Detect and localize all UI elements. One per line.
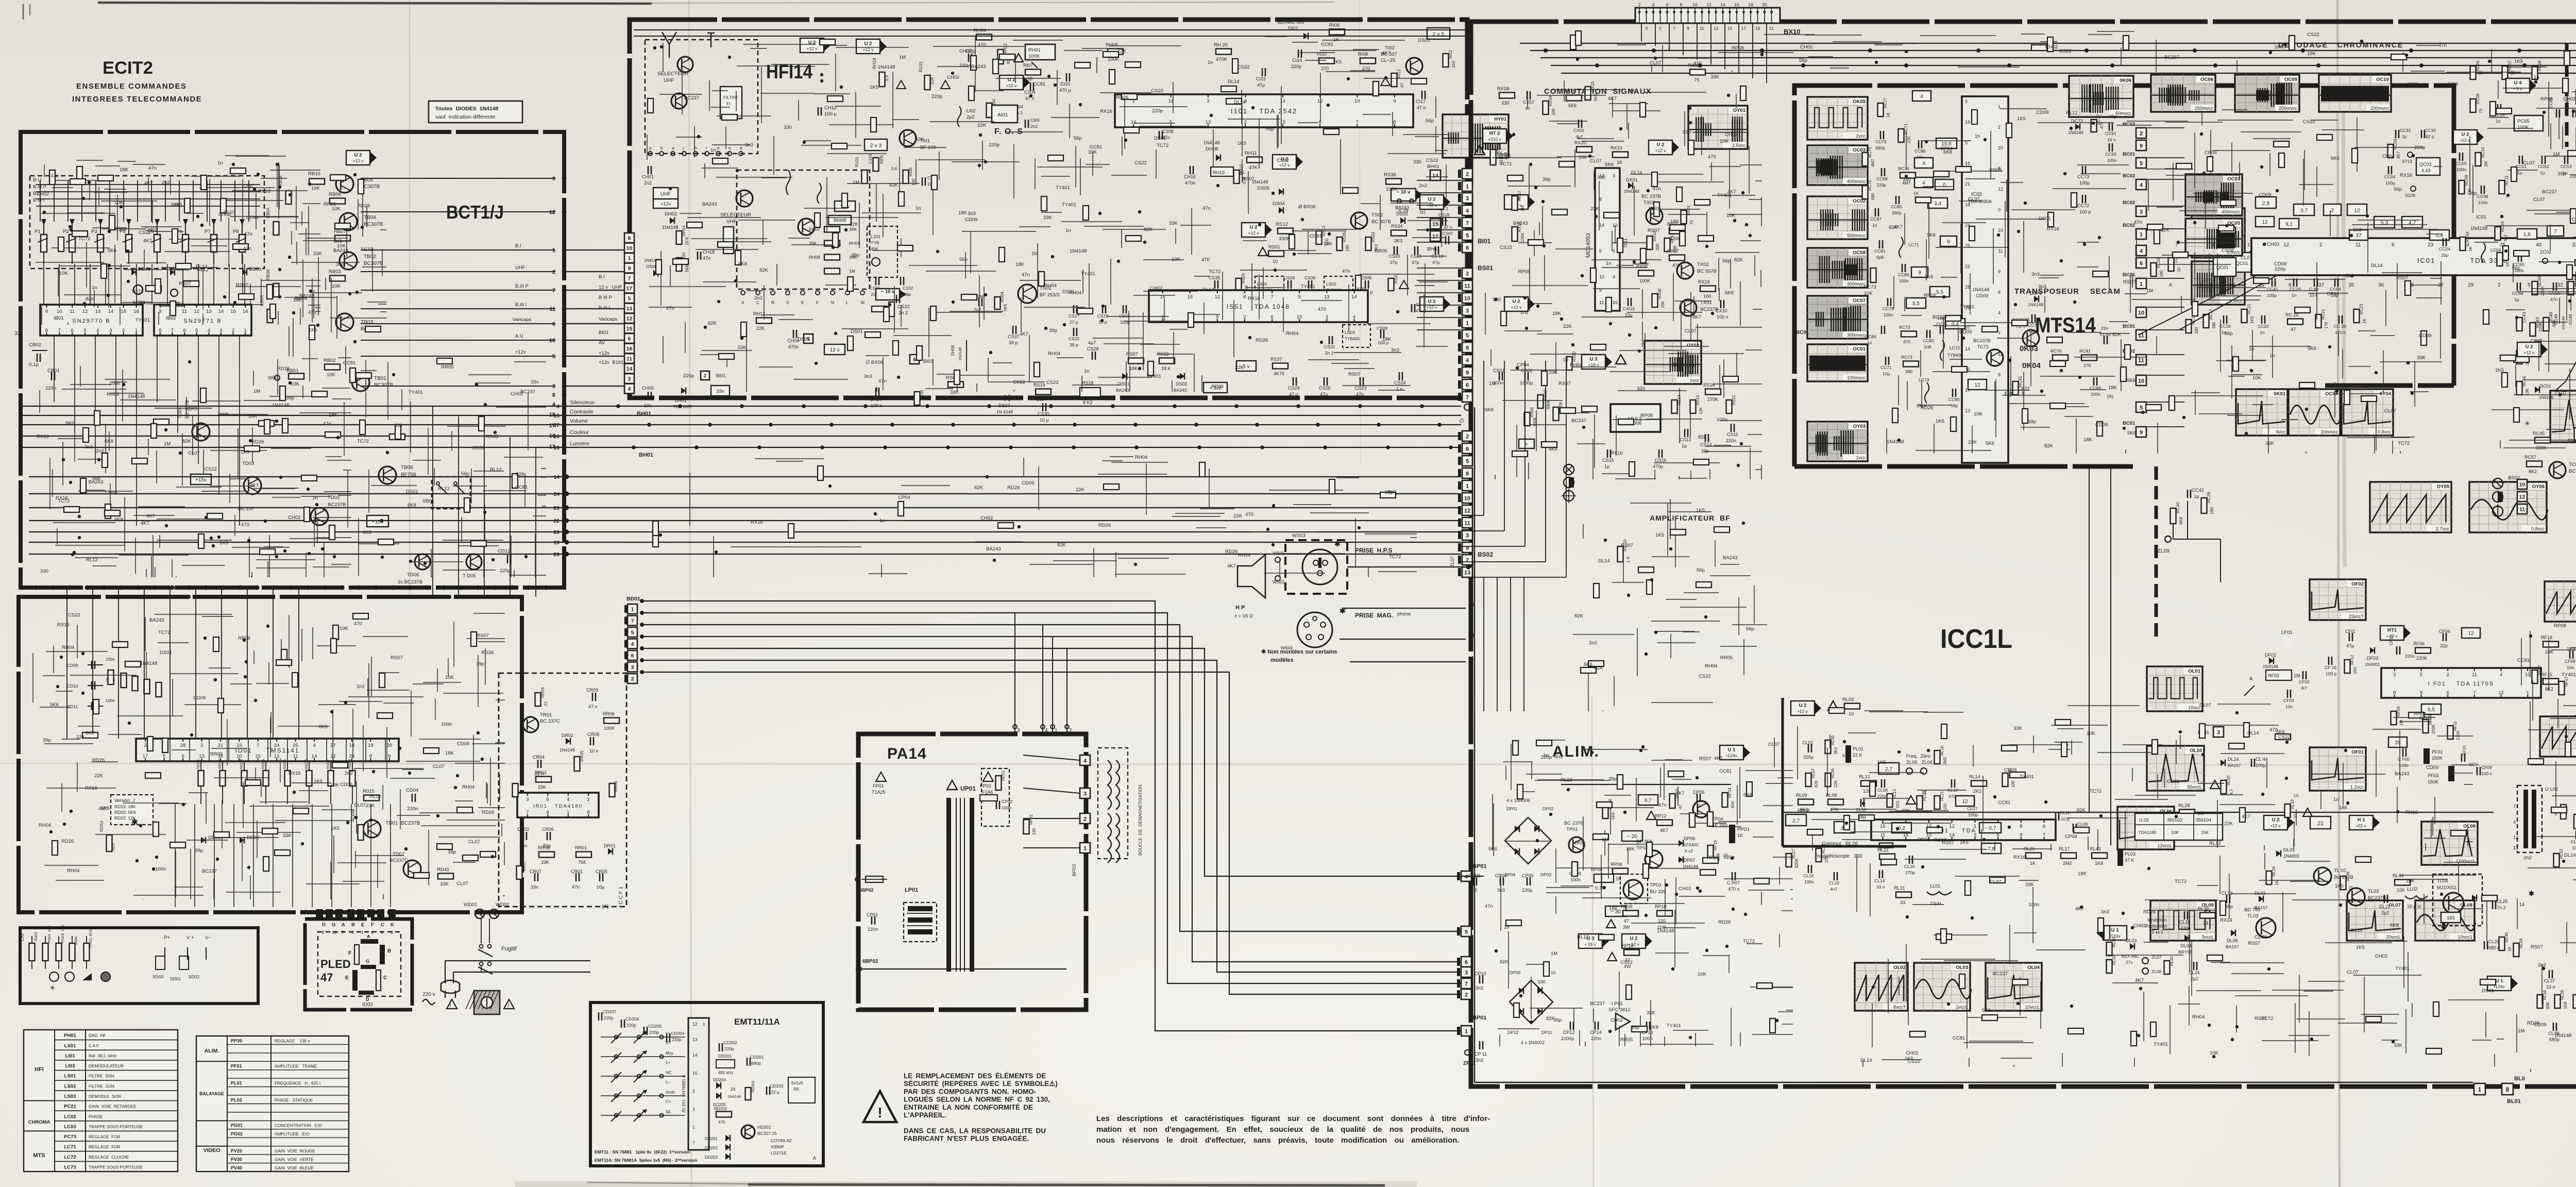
svg-text:CC52: CC52 <box>2538 164 2549 169</box>
svg-text:23: 23 <box>2428 242 2434 248</box>
svg-text:RB07: RB07 <box>334 229 346 235</box>
svg-text:10: 10 <box>1273 259 1278 264</box>
resistor RB08 RB04 RB06 RB05 vertical <box>259 175 292 323</box>
svg-text:100n: 100n <box>1884 312 1893 317</box>
svg-text:BZX46C: BZX46C <box>1683 842 1699 847</box>
svg-text:4µ7: 4µ7 <box>1088 340 1096 345</box>
flag U2 commut <box>1649 140 1679 155</box>
svg-text:1n: 1n <box>1867 340 1872 345</box>
svg-text:RP18: RP18 <box>1622 943 1634 948</box>
components CC43 RC43 RC48 RC42 DC49 column <box>2517 312 2576 365</box>
svg-text:56p: 56p <box>1074 136 1082 141</box>
svg-text:12K: 12K <box>1699 407 1703 414</box>
svg-text:Mcy.: Mcy. <box>666 1051 674 1056</box>
svg-text:1µ: 1µ <box>2540 170 2545 175</box>
svg-text:RD26: RD26 <box>358 203 370 209</box>
bridge rectifier DP09-DP12 <box>1507 970 1556 1045</box>
svg-text:ID01 TMS1141: ID01 TMS1141 <box>235 747 300 754</box>
svg-text:a: a <box>672 145 674 151</box>
switch SB01 <box>422 477 470 509</box>
svg-text:RX16: RX16 <box>289 771 301 776</box>
svg-text:220µ: 220µ <box>1522 888 1532 893</box>
svg-text:50mvcc: 50mvcc <box>2115 111 2132 116</box>
svg-text:1n: 1n <box>1872 223 1877 228</box>
components around TDA1170S <box>2345 626 2480 667</box>
svg-text:U 3: U 3 <box>1590 357 1598 362</box>
svg-text:1: 1 <box>703 1022 705 1027</box>
transistor TD07 BC237C <box>389 851 421 878</box>
svg-text:LC04: LC04 <box>2490 247 2501 253</box>
components RF03 1M 6.5 RF04 200K 28 CF05 100n PF01 150K RF11 270K PF03 150K <box>2388 704 2493 784</box>
svg-text:5: 5 <box>1465 929 1468 935</box>
svg-text:10: 10 <box>1599 274 1604 279</box>
svg-text:4K7: 4K7 <box>1020 331 1028 337</box>
svg-text:CS33: CS33 <box>897 304 910 310</box>
components PH01 100K <box>1025 44 1055 68</box>
svg-text:18K: 18K <box>1129 366 1138 371</box>
svg-text:FREQUENCE H. 625 I.: FREQUENCE H. 625 I. <box>275 1081 321 1086</box>
svg-text:CF12: CF12 <box>2389 635 2394 645</box>
svg-text:BC 307B: BC 307B <box>1371 219 1391 225</box>
scope OC07 <box>1807 296 1868 339</box>
svg-text:330: 330 <box>40 569 48 574</box>
svg-text:100: 100 <box>1703 294 1711 299</box>
svg-text:28: 28 <box>180 743 186 748</box>
svg-text:RR05: RR05 <box>486 434 498 440</box>
svg-text:2: 2 <box>322 930 325 935</box>
svg-text:U 2: U 2 <box>2272 817 2280 823</box>
svg-text:47n: 47n <box>50 173 59 179</box>
svg-text:47K: 47K <box>1830 807 1838 812</box>
selecteur UHF dashed box <box>645 40 758 154</box>
svg-text:FP03: FP03 <box>980 783 991 789</box>
svg-text:INTEGREES TELECOMMANDE: INTEGREES TELECOMMANDE <box>72 95 202 104</box>
components RC56 10K DC51 RC57 8K2 TC01 BC557B <box>2517 376 2576 478</box>
svg-text:12: 12 <box>2468 631 2474 637</box>
svg-text:10: 10 <box>2177 268 2181 272</box>
svg-text:8: 8 <box>1466 345 1469 351</box>
svg-text:RL44: RL44 <box>2393 873 2404 878</box>
note non montees <box>1261 649 1337 663</box>
svg-text:CC04: CC04 <box>2384 174 2396 179</box>
wires chroma to right block <box>2147 128 2184 427</box>
svg-text:12: 12 <box>2513 835 2518 840</box>
svg-text:24: 24 <box>274 743 280 748</box>
svg-text:PPO1: PPO1 <box>1737 827 1750 832</box>
nested wire loops to ALIM BP01 <box>642 601 1461 1031</box>
svg-text:7: 7 <box>2554 229 2557 235</box>
svg-text:QC09: QC09 <box>2447 82 2458 87</box>
svg-text:CC81: CC81 <box>515 484 528 490</box>
svg-text:PG02: PG02 <box>231 1131 243 1136</box>
svg-text:CD09: CD09 <box>457 741 469 747</box>
svg-text:RS11: RS11 <box>1732 395 1736 405</box>
svg-text:220n: 220n <box>2180 926 2191 931</box>
svg-text:BH01: BH01 <box>1427 246 1439 252</box>
svg-text:LE REMPLACEMENT DES ÉLÉMENTS D: LE REMPLACEMENT DES ÉLÉMENTS DE <box>904 1072 1046 1080</box>
svg-text:47n: 47n <box>1342 269 1350 274</box>
svg-text:+12v B191: +12v B191 <box>599 360 623 365</box>
svg-text:11: 11 <box>2519 507 2525 513</box>
svg-text:TD07: TD07 <box>393 851 404 857</box>
svg-text:OL09: OL09 <box>2463 824 2476 829</box>
scope OL06 <box>2117 807 2174 849</box>
svg-text:68p: 68p <box>2029 329 2036 334</box>
svg-text:WS03: WS03 <box>1292 533 1306 539</box>
svg-text:RP08: RP08 <box>1518 269 1530 275</box>
svg-text:U 1: U 1 <box>1728 747 1736 753</box>
svg-text:1N4148: 1N4148 <box>1624 189 1639 194</box>
svg-text:OK05: OK05 <box>1853 99 1866 105</box>
svg-text:3: 3 <box>631 664 634 671</box>
svg-text:+12v: +12v <box>660 202 671 207</box>
svg-text:✱: ✱ <box>131 818 138 827</box>
svg-text:5: 5 <box>547 797 549 803</box>
svg-text:47n: 47n <box>148 165 157 171</box>
svg-text:FP01: FP01 <box>873 783 884 789</box>
label 220v alim wires <box>1461 876 1484 877</box>
svg-text:CD09: CD09 <box>965 217 977 223</box>
svg-text:500mvcc: 500mvcc <box>1847 233 1866 238</box>
svg-text:BC237C: BC237C <box>389 858 408 863</box>
svg-text:2x BC237B: 2x BC237B <box>398 579 422 585</box>
svg-text:47n: 47n <box>243 246 251 252</box>
svg-text:33K: 33K <box>283 833 292 839</box>
svg-text:7: 7 <box>342 930 344 935</box>
resistor RP02 330 <box>1024 814 1037 835</box>
svg-text:15 µ H: 15 µ H <box>2407 904 2421 909</box>
svg-text:2n2: 2n2 <box>1030 124 1038 129</box>
wires detail ICC lower <box>1857 853 2504 1067</box>
transistor HD201 BC327 <box>741 1125 777 1139</box>
svg-text:2vcc: 2vcc <box>1856 133 1866 139</box>
svg-text:11: 11 <box>70 309 75 314</box>
svg-text:9: 9 <box>2020 832 2022 838</box>
ECIT2 right edge connector numbers <box>549 176 567 450</box>
title ECIT2 <box>72 58 202 104</box>
svg-text:RS07: RS07 <box>115 227 127 232</box>
connector column BS02 <box>1458 431 1493 577</box>
svg-text:E: E <box>801 300 804 305</box>
svg-text:LS02: LS02 <box>64 1083 76 1089</box>
svg-text:QC03: QC03 <box>2419 162 2432 167</box>
resistor RB10 <box>308 171 325 191</box>
svg-text:19: 19 <box>553 540 560 546</box>
wires HFI right to central <box>1417 180 1461 330</box>
svg-text:RR05: RR05 <box>1649 206 1661 212</box>
svg-text:12: 12 <box>2354 207 2360 213</box>
bus wires Silencieux Contraste Volume Couleur Lumiere <box>21 399 1461 451</box>
components DC72 CC77 CC91 CC93 <box>2068 114 2117 163</box>
svg-text:PHASE STATIQUE: PHASE STATIQUE <box>275 1098 313 1102</box>
svg-text:P+: P+ <box>164 935 170 941</box>
svg-text:CF 16: CF 16 <box>2325 665 2336 670</box>
svg-text:nous réservons le droit d': nous réservons le droit d'effectuer, san… <box>1096 1136 1460 1145</box>
svg-text:RC07: RC07 <box>2507 60 2512 71</box>
IC02 pin numbers <box>1965 99 2003 413</box>
svg-text:d: d <box>740 145 742 151</box>
svg-text:SD03: SD03 <box>152 974 164 979</box>
svg-text:33: 33 <box>2203 921 2208 926</box>
label 6BP02 <box>856 959 1066 972</box>
svg-text:56p: 56p <box>1426 118 1434 124</box>
svg-text:S004: S004 <box>33 932 38 941</box>
svg-text:16: 16 <box>133 309 139 314</box>
bus wires lower group 14-26 <box>29 474 1461 558</box>
svg-text:U 1: U 1 <box>2496 978 2504 984</box>
svg-text:180: 180 <box>2194 327 2199 334</box>
svg-text:37: 37 <box>2355 233 2362 239</box>
svg-text:56p: 56p <box>1266 126 1274 132</box>
svg-text:4n7: 4n7 <box>1830 887 1837 892</box>
svg-text:ZP01: ZP01 <box>1463 1061 1476 1066</box>
svg-text:11: 11 <box>293 754 298 759</box>
svg-text:33p: 33p <box>1701 448 1709 454</box>
svg-text:TC72: TC72 <box>1157 143 1168 148</box>
svg-text:RH04: RH04 <box>62 645 74 650</box>
svg-text:1n: 1n <box>2292 293 2297 298</box>
svg-text:82K: 82K <box>1144 227 1153 232</box>
svg-text:4K7: 4K7 <box>1727 189 1736 195</box>
svg-text:BC01: BC01 <box>2123 272 2136 278</box>
svg-text:CH14: CH14 <box>870 397 882 402</box>
svg-text:5: 5 <box>1170 120 1172 125</box>
resistor RS01 10 warning <box>1258 244 1284 264</box>
diode DS06 1N4148 <box>644 258 659 276</box>
svg-text:82K: 82K <box>708 321 717 326</box>
svg-text:OC09: OC09 <box>2284 77 2297 82</box>
svg-text:DD201: DD201 <box>718 1054 732 1059</box>
svg-text:18K: 18K <box>1672 362 1682 367</box>
svg-text:B III P: B III P <box>599 295 612 300</box>
svg-text:ICC1L: ICC1L <box>1940 624 2012 654</box>
svg-text:RC75: RC75 <box>1868 180 1872 191</box>
svg-text:8: 8 <box>2393 690 2396 696</box>
svg-text:BC327.25: BC327.25 <box>757 1131 777 1136</box>
svg-text:47µ: 47µ <box>1320 392 1328 397</box>
components near bottom right of chroma RC40 RC39 CC42 ZL09 <box>2158 488 2214 554</box>
svg-text:80K: 80K <box>2546 1001 2550 1009</box>
svg-text:GAIN VOIE RETARDEE: GAIN VOIE RETARDEE <box>89 1105 137 1109</box>
svg-text:47K: 47K <box>1672 263 1681 268</box>
svg-text:1N4001: 1N4001 <box>2283 854 2300 859</box>
svg-text:CC 30: CC 30 <box>2334 324 2346 329</box>
svg-text:0K06: 0K06 <box>2120 78 2131 83</box>
svg-text:37: 37 <box>2318 282 2325 288</box>
svg-text:AI01: AI01 <box>997 112 1008 118</box>
block border EMT11 <box>590 1002 823 1166</box>
svg-text:23: 23 <box>553 505 560 511</box>
svg-text:82K: 82K <box>759 268 769 273</box>
svg-text:CR05: CR05 <box>596 869 607 874</box>
svg-text:LS03: LS03 <box>1345 330 1355 335</box>
svg-text:H P: H P <box>1235 605 1245 611</box>
transistor TS01 BF253 <box>1018 285 1060 303</box>
svg-text:CS38: CS38 <box>1284 275 1295 280</box>
svg-text:5K6: 5K6 <box>1594 93 1598 101</box>
svg-text:RL28: RL28 <box>2178 803 2190 809</box>
svg-text:•22 v: •22 v <box>2356 823 2366 828</box>
svg-text:K: K <box>391 922 394 928</box>
svg-text:18K: 18K <box>958 210 968 216</box>
svg-text:CH02: CH02 <box>288 515 300 521</box>
svg-text:14: 14 <box>1949 832 1955 838</box>
flag -15v small <box>191 474 211 484</box>
svg-text:DD203: DD203 <box>705 1155 718 1160</box>
svg-text:S 29: S 29 <box>1398 208 1409 214</box>
svg-text:2n2: 2n2 <box>644 180 652 186</box>
svg-text:1n: 1n <box>2496 119 2501 124</box>
svg-text:2,7: 2,7 <box>1885 766 1893 772</box>
wires detail commutation <box>1485 74 1762 479</box>
components CC89 220p CC74 4M7 CC85 390p CC87 1n RC75 680 RC74 1K <box>1862 166 1931 228</box>
svg-text:1: 1 <box>1466 320 1469 326</box>
svg-text:470: 470 <box>1318 307 1326 312</box>
svg-text:ALIM.: ALIM. <box>205 1048 219 1054</box>
resistor RI11 150 RI12 47 <box>1392 49 1456 88</box>
svg-text:100n: 100n <box>1899 278 1909 283</box>
svg-text:2: 2 <box>704 373 706 379</box>
svg-text:1K5: 1K5 <box>1895 800 1900 808</box>
svg-text:6K8: 6K8 <box>1725 290 1734 296</box>
svg-text:1N4148: 1N4148 <box>1070 248 1087 254</box>
svg-text:75K: 75K <box>578 860 586 865</box>
caps CD207 CD206 CD205 CD204 row <box>599 1009 685 1042</box>
flag U2 top <box>800 38 831 53</box>
svg-text:18K: 18K <box>1552 311 1562 316</box>
svg-text:R: R <box>771 300 774 305</box>
svg-text:RC05: RC05 <box>2476 60 2480 71</box>
svg-text:RC10: RC10 <box>2481 147 2485 158</box>
svg-text:8: 8 <box>552 392 555 398</box>
svg-text:PD03 10K: PD03 10K <box>60 925 65 943</box>
svg-text:BF 253/3: BF 253/3 <box>1040 292 1060 298</box>
svg-text:1M: 1M <box>899 55 906 60</box>
svg-text:15: 15 <box>692 1071 698 1076</box>
svg-text:RD26: RD26 <box>481 650 494 656</box>
svg-text:LS01: LS01 <box>1257 281 1267 287</box>
cap CP06 1n RP14 82K <box>1693 787 1735 808</box>
svg-text:RL56: RL56 <box>2543 990 2547 1000</box>
svg-text:15: 15 <box>1727 26 1733 31</box>
svg-text:1K: 1K <box>1737 833 1743 838</box>
svg-text:DS01: DS01 <box>851 329 863 335</box>
box 2v5 top right <box>1427 28 1450 39</box>
svg-text:REGLAGE FOB: REGLAGE FOB <box>89 1135 121 1140</box>
svg-text:RC23: RC23 <box>2359 304 2364 314</box>
svg-text:OC10: OC10 <box>2376 77 2389 82</box>
svg-text:PH01: PH01 <box>1028 47 1041 53</box>
caps CC73 CC72 100p <box>2077 166 2091 214</box>
svg-text:Réf 39,2 MHz: Réf 39,2 MHz <box>89 1054 117 1058</box>
svg-text:B.I: B.I <box>515 243 521 249</box>
svg-text:BI01: BI01 <box>1478 238 1491 245</box>
svg-text:TD06: TD06 <box>407 572 419 578</box>
label ZP01 <box>1463 1050 1476 1066</box>
svg-text:TY401: TY401 <box>409 390 423 395</box>
svg-text:1N4148: 1N4148 <box>2539 395 2554 400</box>
svg-text:BC02: BC02 <box>2123 200 2135 206</box>
svg-text:1K5: 1K5 <box>314 779 323 784</box>
svg-text:BH01: BH01 <box>1427 164 1439 170</box>
caps CS29 CS25 CS23 CS24 row <box>1288 372 1406 397</box>
svg-text:10 µ: 10 µ <box>1040 417 1049 423</box>
svg-text:RB09: RB09 <box>329 192 341 197</box>
warning + RH60 resistor <box>1475 143 1509 165</box>
svg-text:1: 1 <box>2140 231 2143 238</box>
resistor RC20 47 <box>2285 312 2303 332</box>
wire bus ECIT2 to HFI <box>564 250 625 386</box>
svg-text:RH14: RH14 <box>682 225 686 236</box>
svg-text:6K8: 6K8 <box>738 261 747 267</box>
svg-text:150K: 150K <box>2432 756 2443 761</box>
warning triangle U3 <box>1616 355 1626 364</box>
svg-text:V−: V− <box>666 1041 671 1045</box>
svg-text:p: p <box>649 145 652 151</box>
IC TL01 TDA1180 <box>1871 820 2056 840</box>
svg-text:CC20: CC20 <box>2258 324 2269 329</box>
wires detail mid gap <box>1573 499 1767 711</box>
svg-text:LC72: LC72 <box>64 1155 76 1160</box>
junction dots ECIT2 bottom border <box>34 586 549 590</box>
svg-text:820K: 820K <box>1794 858 1799 868</box>
IC IB02 SN29771B <box>154 305 251 336</box>
svg-text:356104: 356104 <box>2196 817 2211 823</box>
block border chrominance <box>1794 86 2454 466</box>
resistors RH14 RH15 vertical <box>676 225 690 272</box>
svg-text:DS01: DS01 <box>798 337 810 342</box>
svg-text:470µ: 470µ <box>1653 464 1663 469</box>
svg-text:75: 75 <box>2511 71 2515 75</box>
svg-text:4: 4 <box>2140 248 2143 254</box>
svg-text:1K: 1K <box>1886 112 1891 118</box>
svg-text:4 x 1N4002: 4 x 1N4002 <box>1521 1040 1545 1045</box>
svg-text:13: 13 <box>206 309 212 314</box>
flag U2 right chroma <box>2453 130 2484 144</box>
svg-text:RR05: RR05 <box>441 364 453 370</box>
svg-text:RS07: RS07 <box>1558 381 1571 387</box>
resistors RX15 RX16 5K6 <box>1564 81 1598 108</box>
svg-text:1: 1 <box>567 810 569 815</box>
svg-text:220p: 220p <box>649 1030 659 1035</box>
svg-text:DC49: DC49 <box>2554 314 2558 325</box>
svg-text:CS02: CS02 <box>1521 368 1533 373</box>
svg-text:470: 470 <box>1708 154 1716 160</box>
svg-text:LOGUÉS SELON LA NORME NF C 92: LOGUÉS SELON LA NORME NF C 92 130, <box>904 1096 1050 1104</box>
svg-text:BA243: BA243 <box>971 64 986 70</box>
scope OC01 <box>1807 344 1868 381</box>
svg-text:BA243: BA243 <box>299 293 314 299</box>
svg-text:CH18: CH18 <box>703 249 715 255</box>
svg-text:CL07: CL07 <box>456 881 468 887</box>
diode DI01 BZX46C 3v3 RI09 1K <box>1278 20 1345 43</box>
svg-text:7: 7 <box>2473 690 2476 696</box>
box 3v6 <box>1204 382 1227 393</box>
cap CS09 180p <box>1377 326 1389 345</box>
svg-text:18 K: 18 K <box>1161 366 1171 371</box>
components CC05 100n RC10 1M RC09 1M CC06 100n RC11 <box>2455 147 2509 205</box>
svg-text:DH08: DH08 <box>1206 146 1218 152</box>
svg-text:BS01: BS01 <box>1478 264 1493 272</box>
svg-text:1N4148: 1N4148 <box>727 1094 741 1099</box>
svg-text:1: 1 <box>361 930 364 935</box>
diode DL01 1N4001 <box>2276 847 2300 859</box>
svg-text:C109: C109 <box>1024 90 1036 95</box>
block border HFI14 <box>630 20 1467 398</box>
svg-text:T D05: T D05 <box>463 573 476 579</box>
svg-text:47 n: 47 n <box>1417 105 1426 110</box>
svg-text:22K: 22K <box>1834 780 1838 788</box>
